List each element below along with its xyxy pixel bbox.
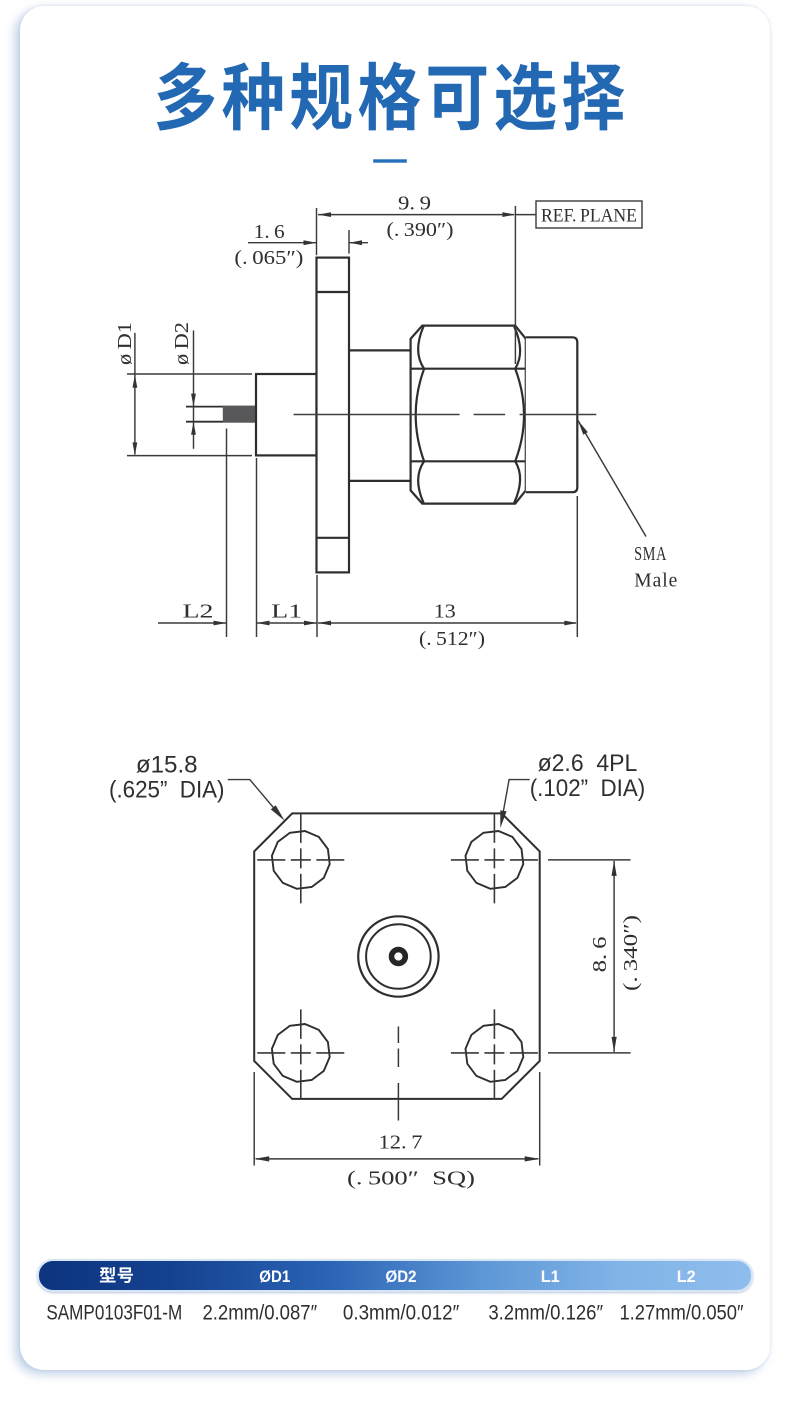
leader line for 2.6 label (502, 780, 530, 822)
side view: body block (256, 374, 317, 455)
dimension L2 dimension line tail (158, 622, 227, 624)
dimension 13 left arrowhead (318, 621, 331, 626)
svg-text:0.3mm/0.012″: 0.3mm/0.012″ (343, 1302, 460, 1325)
dimension 8.6 bottom arrowhead (612, 1037, 617, 1052)
side view: hex face line upper (411, 368, 526, 370)
dimension D1 bottom arrowhead (133, 442, 138, 455)
front view: connector interface outer circle (358, 916, 438, 996)
side view: hex bottom face right arc (514, 461, 520, 502)
dimension 1.6 dimension line left tail (248, 242, 317, 244)
dimension 13 dimension line (318, 622, 576, 624)
side view: coupling nut right cylinder (526, 337, 578, 492)
SMA Male leader line (578, 421, 646, 537)
side view: hex nut silhouette (411, 326, 526, 504)
front view: mounting hole top-left circle (272, 831, 330, 889)
dimension 12.7 extension line right (539, 1072, 541, 1166)
dimension 1.6 extension line right (flange right) (348, 230, 350, 254)
front view: mounting hole top-left horizontal center line (257, 859, 344, 861)
dimension 8.6 extension line top (548, 859, 631, 861)
dimension D1 dimension line (134, 333, 136, 455)
dimension D2 lower arrowhead (outside) (191, 422, 196, 435)
side view: hex top face right arc (514, 327, 520, 369)
dimension D1 extension line top (127, 373, 252, 375)
dimension D1 extension line bottom (127, 455, 252, 457)
front view: flange vertical center mark (397, 1027, 399, 1121)
dimension 12.7 left arrowhead (254, 1156, 269, 1161)
side view: barrel between flange and hex (349, 350, 411, 481)
dimension L2/L1 shared arrowhead at body left (257, 621, 270, 626)
dimension 12.7 right arrowhead (525, 1156, 540, 1161)
svg-text:3.2mm/0.126″: 3.2mm/0.126″ (488, 1302, 603, 1325)
front view: mounting hole top-left vertical center line (300, 813, 302, 903)
dimension D1 top arrowhead (133, 375, 138, 388)
dimension 9.9 dimension line (318, 214, 514, 216)
leader arrowhead for 2.6 label (500, 810, 506, 828)
side view: flange plate (317, 258, 350, 573)
dimension 1.6 left arrowhead (outside) (304, 240, 317, 245)
page title text 多种规格可选择 (drawn as paths) (157, 61, 215, 130)
bottom dimensions: extension line at pin step (226, 429, 228, 638)
front view: mounting hole bottom-left circle (272, 1024, 330, 1082)
title underline dash (373, 159, 407, 162)
dimension 12.7 dimension line (256, 1158, 539, 1160)
svg-text:1.27mm/0.050″: 1.27mm/0.050″ (619, 1302, 744, 1325)
dimension L1 right arrowhead (304, 621, 317, 626)
side view: contact pin dark section (223, 406, 256, 423)
front view: flange octagon outline (254, 813, 540, 1099)
dimension 9.9 left arrowhead (318, 212, 331, 217)
header label 型号 (paths) (100, 1267, 116, 1282)
front view: mounting hole bottom-left vertical center line (300, 1009, 302, 1099)
side view: hex top face left arc (418, 327, 424, 369)
title heading (0, 0, 790, 180)
svg-text:2.2mm/0.087″: 2.2mm/0.087″ (202, 1302, 317, 1325)
dimension 12.7 extension line left (253, 1072, 255, 1166)
bottom dimensions: extension line at body left (256, 458, 258, 637)
svg-text:SAMP0103F01-M: SAMP0103F01-M (46, 1302, 182, 1325)
side view: flange corner-cut line upper (317, 291, 350, 293)
side view: hex bottom face left arc (418, 461, 424, 502)
REF. PLANE connector line (515, 214, 536, 216)
front view: mounting hole top-right horizontal center line (451, 859, 538, 861)
front view: connector interface inner circle (366, 924, 431, 989)
spec table header bar (37, 1259, 753, 1292)
dimension 9.9 extension line left (flange left) (316, 208, 318, 255)
SMA Male leader arrowhead (578, 421, 588, 435)
dimension 9.9 extension line right / REF plane line (514, 206, 516, 364)
dimension D2 dimension line (193, 330, 195, 448)
front view: mounting hole bottom-left horizontal center line (257, 1052, 344, 1054)
front view: mounting hole bottom-right circle (466, 1024, 524, 1082)
dimension D2 upper arrowhead (outside) (191, 394, 196, 407)
dimension L2 left arrowhead (outside) (214, 621, 227, 626)
dimension 8.6 dimension line (613, 861, 615, 1052)
front view: mounting hole top-right circle (466, 831, 524, 889)
side view: center line (294, 414, 597, 416)
dimension 8.6 extension line bottom (548, 1052, 631, 1054)
dimension 1.6 dimension line right tail (349, 242, 368, 244)
front view: mounting hole bottom-right horizontal center line (451, 1052, 538, 1054)
front view: mounting hole top-right vertical center line (493, 813, 495, 903)
side view: contact pin outline (186, 407, 256, 422)
dimension 1.6 right arrowhead (outside) (349, 240, 362, 245)
front view: mounting hole bottom-right vertical center line (493, 1009, 495, 1099)
side view: hex middle face left arc (416, 369, 424, 462)
side view: hex middle face right arc (515, 369, 524, 462)
front view: center contact dark ring (392, 950, 406, 964)
leader arrowhead for 15.8 label (271, 805, 285, 820)
leader line for 15.8 label (228, 780, 281, 817)
dimension 8.6 top arrowhead (612, 861, 617, 876)
dimension L1 dimension line (257, 622, 318, 624)
dimension 13 right arrowhead (564, 621, 577, 626)
side view: hex face line lower (411, 460, 526, 462)
REF. PLANE box (536, 201, 642, 228)
side view: flange corner-cut line lower (317, 537, 350, 539)
bottom dimensions: extension line at connector right end (576, 496, 578, 637)
bottom dimensions: extension line at flange left (316, 575, 318, 637)
dimension 9.9 right arrowhead (502, 212, 515, 217)
